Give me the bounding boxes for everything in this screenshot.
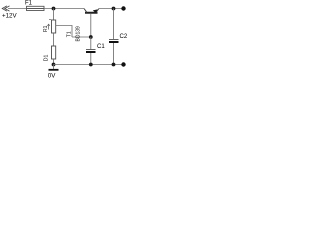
bottom rail terminal dot	[121, 62, 125, 66]
potentiometer R1 body	[52, 20, 56, 33]
fuse F1	[27, 6, 45, 10]
ground node junction dot	[52, 63, 56, 67]
wire base node to C1	[90, 37, 92, 49]
output node junction dot C2 tap	[112, 7, 116, 11]
capacitor C2 bottom plate	[109, 41, 119, 43]
svg-text:F1: F1	[25, 1, 33, 7]
connector J1 input chevrons	[2, 6, 9, 11]
potentiometer R1 value mark	[49, 19, 51, 21]
output terminal dot	[121, 6, 125, 10]
svg-text:D1: D1	[43, 54, 49, 61]
potentiometer R1 wiper arrow	[47, 24, 49, 29]
capacitor C1 bottom plate	[86, 51, 96, 53]
transistor T1 base lead down	[90, 14, 92, 37]
svg-text:T1: T1	[67, 31, 73, 37]
wire D1 to ground node	[53, 59, 55, 65]
svg-text:0V: 0V	[48, 73, 56, 80]
wire R1 bottom to D1	[53, 33, 55, 46]
wire C2 tap down	[113, 9, 115, 40]
node A junction dot	[52, 7, 56, 11]
C1 bottom junction dot	[89, 63, 93, 67]
ground symbol bar	[49, 69, 59, 71]
bottom rail wire	[54, 64, 124, 66]
svg-text:R1: R1	[43, 25, 49, 32]
transistor T1 emitter lead	[96, 9, 99, 13]
wire fuse to node A	[44, 8, 84, 10]
wire emitter to output	[99, 8, 124, 10]
wire C2 to bottom rail	[113, 43, 115, 65]
wire C1 to bottom rail	[90, 53, 92, 65]
base node junction dot	[89, 35, 93, 39]
capacitor C2 top plate	[109, 39, 119, 41]
zener diode D1 body	[52, 46, 56, 59]
svg-text:BD139: BD139	[76, 26, 82, 42]
wire bend to base node	[72, 36, 91, 38]
transistor T1 emitter arrow	[93, 9, 98, 13]
wire node A down to R1	[53, 9, 55, 21]
transistor T1 collector lead	[84, 9, 87, 13]
svg-text:C1: C1	[97, 44, 105, 50]
transistor T1 base bar	[85, 12, 98, 14]
wire bend down	[71, 26, 73, 38]
wire wiper to bend	[56, 25, 73, 27]
C2 bottom junction dot	[112, 63, 116, 67]
ground symbol stub	[53, 65, 55, 70]
wire input to fuse	[8, 8, 27, 10]
svg-text:+12V: +12V	[2, 13, 17, 20]
svg-text:C2: C2	[120, 34, 128, 40]
capacitor C1 top plate	[86, 49, 96, 51]
